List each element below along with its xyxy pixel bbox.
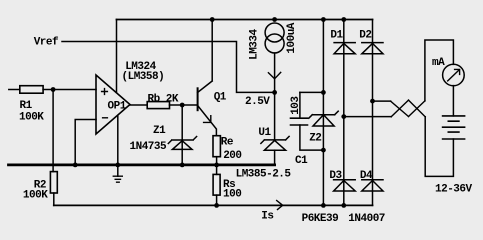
- svg-text:1N4007: 1N4007: [348, 213, 385, 225]
- capacitor C1 103: [290, 92, 323, 166]
- wire meter loop: [425, 40, 454, 176]
- wire Z1 branch: [180, 105, 185, 167]
- node junction Rs bottom: [214, 203, 219, 208]
- op-amp U1 OP1 triangle: [96, 75, 130, 134]
- svg-text:mA: mA: [432, 57, 445, 69]
- node junction D1/D3 bottom: [341, 203, 346, 208]
- wire Vref to 2.5V node: [62, 42, 273, 93]
- node 2.5V: [245, 90, 277, 108]
- wire bottom feedback rail: [54, 204, 373, 206]
- node junction C1 top / Z2: [321, 90, 326, 95]
- svg-text:LM334: LM334: [249, 28, 261, 59]
- svg-text:D1: D1: [330, 29, 343, 41]
- svg-text:Re: Re: [221, 136, 234, 148]
- svg-text:LM385-2.5: LM385-2.5: [236, 169, 292, 181]
- diode D3: [329, 170, 355, 191]
- node tap upper loop: [370, 99, 375, 104]
- resistor Rs 100: [213, 165, 241, 206]
- voltage reference V1 LM385-2.5: [236, 92, 292, 180]
- wire Z2 branch vertical: [321, 17, 326, 208]
- svg-text:OP1: OP1: [108, 101, 127, 113]
- svg-text:D2: D2: [359, 29, 371, 41]
- resistor Re 200: [213, 136, 242, 165]
- svg-text:1N4735: 1N4735: [130, 141, 168, 153]
- svg-text:R1: R1: [20, 100, 33, 112]
- op-amp part label LM324 (LM358): [122, 61, 165, 83]
- svg-text:D4: D4: [360, 170, 373, 182]
- diode D1: [330, 17, 355, 205]
- node tap lower loop: [341, 114, 346, 119]
- zener Z1 1N4735: [130, 125, 197, 153]
- node junction R1/+input: [51, 87, 56, 92]
- svg-text:U1: U1: [258, 127, 271, 139]
- svg-text:103: 103: [290, 96, 302, 115]
- resistor R1 100K: [9, 86, 96, 124]
- part number P6KE39: [302, 213, 339, 225]
- svg-text:P6KE39: P6KE39: [302, 213, 339, 225]
- wire top positive rail: [117, 19, 373, 21]
- svg-text:Vref: Vref: [34, 37, 59, 49]
- svg-text:2.5V: 2.5V: [245, 96, 270, 108]
- svg-text:D3: D3: [329, 170, 342, 182]
- node junction C1 bottom / Z2: [321, 148, 326, 153]
- svg-text:12-36V: 12-36V: [435, 183, 473, 195]
- wire inverting input to common rail: [73, 120, 96, 168]
- battery 12-36V: [435, 116, 473, 195]
- wire Is output arrow: [261, 201, 282, 223]
- node junction Re/Rs/rail: [214, 163, 219, 168]
- wire op-amp output: [130, 104, 147, 106]
- wire twisted pair to loop: [344, 100, 425, 117]
- svg-text:C1: C1: [295, 155, 308, 167]
- svg-text:Q1: Q1: [214, 91, 227, 103]
- wire op-amp V- pin to rail: [115, 116, 120, 168]
- svg-text:100K: 100K: [23, 190, 48, 202]
- node junction Q1 collector / top rail: [210, 17, 215, 22]
- wire common rail (thick): [9, 163, 275, 166]
- part number 1N4007: [348, 213, 385, 225]
- transistor Q1: [198, 20, 227, 136]
- svg-text:200: 200: [223, 150, 241, 162]
- svg-text:Z1: Z1: [153, 125, 166, 137]
- svg-text:100uA: 100uA: [286, 22, 298, 53]
- svg-text:100K: 100K: [19, 111, 44, 123]
- zener Z2 P6KE39: [309, 111, 338, 144]
- resistor R2 100K: [23, 172, 57, 206]
- svg-text:Z2: Z2: [309, 133, 321, 145]
- svg-text:Is: Is: [261, 210, 273, 222]
- wire junction down to R2: [52, 90, 54, 172]
- node Vref label: [34, 37, 59, 49]
- wire op-amp V+ pin to top rail: [116, 20, 118, 93]
- svg-text:(LM358): (LM358): [122, 71, 165, 83]
- meter mA: [432, 57, 464, 86]
- diode D2: [359, 20, 383, 206]
- ground: [113, 165, 122, 182]
- resistor Rb 2K: [147, 93, 197, 108]
- node junction Rb/Q1 base/Z1: [180, 103, 185, 108]
- svg-text:Rb 2K: Rb 2K: [148, 93, 179, 105]
- diode D4: [360, 170, 383, 191]
- current source LM334 100uA: [249, 17, 299, 92]
- svg-text:100: 100: [223, 188, 241, 200]
